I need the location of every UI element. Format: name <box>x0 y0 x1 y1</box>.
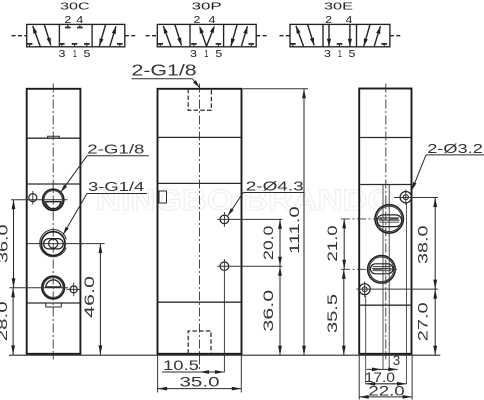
label 2-G1/8 with leader <box>61 142 149 192</box>
svg-text:3: 3 <box>324 49 331 60</box>
right view vertical centerline <box>385 84 387 360</box>
right view mounting hole lower <box>357 282 439 298</box>
front view side tab <box>159 191 167 203</box>
svg-text:22.0: 22.0 <box>368 383 404 398</box>
valve 30P body <box>157 24 256 46</box>
svg-text:21.0: 21.0 <box>325 225 340 261</box>
svg-text:3: 3 <box>393 353 400 368</box>
dimension 28.0 left <box>0 288 15 355</box>
svg-text:27.0: 27.0 <box>415 302 430 341</box>
left view bottom tab <box>46 303 62 307</box>
front view mounting hole lower <box>217 259 282 372</box>
svg-text:1: 1 <box>204 49 208 60</box>
svg-text:1: 1 <box>73 49 77 60</box>
pilot dashes right of 30E <box>390 35 402 37</box>
dimension 22.0 <box>359 355 412 399</box>
front view body outline <box>158 89 242 354</box>
svg-text:4: 4 <box>76 15 83 26</box>
dimension 3 <box>367 353 401 371</box>
pilot dashes between 30C and 30P <box>125 35 158 37</box>
right view body outline <box>359 89 411 354</box>
watermark NINGBO BRANDO <box>96 184 394 217</box>
valve symbol 30P title <box>192 0 222 12</box>
svg-text:4: 4 <box>209 15 216 26</box>
svg-text:2-G1/8: 2-G1/8 <box>132 62 197 79</box>
svg-text:111.0: 111.0 <box>287 206 302 254</box>
dimension 46.0 <box>82 244 102 355</box>
left view port circle G1/8 top <box>43 189 64 210</box>
svg-text:2-Ø3.2: 2-Ø3.2 <box>427 142 483 156</box>
svg-text:2: 2 <box>64 15 71 26</box>
svg-text:28.0: 28.0 <box>0 301 10 341</box>
right view section lines <box>360 138 410 306</box>
right view side port lower <box>368 255 396 283</box>
svg-text:35.5: 35.5 <box>325 294 340 333</box>
right view upper port centerline <box>341 218 404 220</box>
label 2-O3.2 with leader <box>412 142 484 191</box>
svg-text:2: 2 <box>325 15 332 26</box>
svg-text:46.0: 46.0 <box>82 276 97 318</box>
svg-text:35.0: 35.0 <box>180 374 220 389</box>
valve symbol 30C title <box>60 0 90 12</box>
dimension 36.0 middle <box>261 266 282 355</box>
dimension 111.0 <box>243 89 308 355</box>
dimension 21.0 <box>325 219 346 269</box>
left view top tab <box>48 136 60 138</box>
front view vertical centerline <box>199 84 201 373</box>
valve 30P port labels <box>190 15 223 60</box>
right view bore projection lines <box>366 185 407 384</box>
svg-text:2-Ø4.3: 2-Ø4.3 <box>246 180 304 194</box>
svg-text:5: 5 <box>84 49 91 60</box>
svg-text:2: 2 <box>194 15 201 26</box>
dimension 17.0 <box>365 370 407 386</box>
valve 30E body <box>290 24 390 46</box>
svg-text:10.5: 10.5 <box>163 358 199 373</box>
svg-text:30E: 30E <box>324 0 353 12</box>
left view port circle bottom <box>42 276 65 299</box>
valve 30E port labels <box>324 15 356 60</box>
svg-text:2-G1/8: 2-G1/8 <box>87 142 144 156</box>
left view port circle G1/4 middle <box>40 230 67 257</box>
valve 30C body <box>27 24 125 46</box>
right view side port upper <box>375 205 403 233</box>
svg-text:30P: 30P <box>192 0 222 12</box>
svg-text:3: 3 <box>190 49 197 60</box>
dimension 36.0 left <box>0 200 15 288</box>
svg-text:4: 4 <box>346 15 353 26</box>
dimension 20.0 <box>261 219 282 266</box>
right view lower port centerline <box>341 268 397 270</box>
pilot dashes between 30P and 30E <box>256 35 290 37</box>
left view mounting hole top-left <box>29 191 37 205</box>
left view mounting hole bottom-right <box>67 283 82 297</box>
front view hidden port top <box>188 89 211 110</box>
svg-text:30C: 30C <box>60 0 90 12</box>
common bottom extension line <box>9 354 440 356</box>
front view mounting hole upper <box>217 212 282 227</box>
label 2-O4.3 with leader <box>228 180 305 216</box>
valve 30C port labels <box>59 15 91 60</box>
left view centerline through middle port / 46.0 extension <box>28 243 105 245</box>
svg-text:1: 1 <box>338 49 342 60</box>
svg-text:3-G1/4: 3-G1/4 <box>88 180 144 194</box>
dimension 27.0 <box>415 289 437 355</box>
left view section lines <box>28 138 80 303</box>
dimension 35.0 <box>158 355 242 392</box>
front view hidden port bottom <box>188 331 211 354</box>
svg-text:36.0: 36.0 <box>0 225 11 263</box>
svg-text:3: 3 <box>59 49 66 60</box>
left view centerline through bottom port / 36.0 extension <box>10 287 69 289</box>
left view body outline <box>27 89 81 354</box>
label 2-G1/8 top with leader <box>132 62 200 87</box>
svg-text:38.0: 38.0 <box>415 225 430 264</box>
svg-text:36.0: 36.0 <box>261 290 276 332</box>
dimension 10.5 <box>162 358 224 374</box>
front view section lines <box>159 137 241 302</box>
dimension 35.5 <box>325 269 346 355</box>
valve symbol 30E title <box>324 0 353 12</box>
left view vertical centerline <box>52 84 54 360</box>
svg-text:20.0: 20.0 <box>261 226 276 260</box>
pilot dashes left of 30C <box>12 35 27 37</box>
label 3-G1/4 with leader <box>63 180 147 235</box>
right view mounting hole upper <box>394 190 438 206</box>
svg-text:5: 5 <box>349 49 356 60</box>
svg-text:5: 5 <box>215 49 222 60</box>
left view centerline through top port <box>11 199 68 201</box>
dimension 38.0 <box>415 198 437 290</box>
